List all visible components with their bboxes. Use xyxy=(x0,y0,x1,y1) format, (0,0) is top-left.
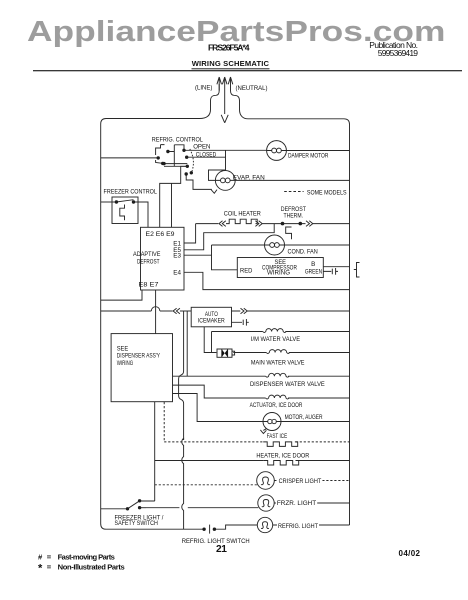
plug prong LINE xyxy=(217,77,222,91)
svg-text:OPEN: OPEN xyxy=(193,143,210,150)
svg-text:HEATER, ICE DOOR: HEATER, ICE DOOR xyxy=(256,453,310,459)
fast ice row dashed xyxy=(164,402,349,446)
left riser v1 dispenser to safety switch xyxy=(141,402,155,501)
freezer light row xyxy=(146,495,350,511)
main schematic outline left xyxy=(101,119,204,530)
svg-text:FRZR. LIGHT: FRZR. LIGHT xyxy=(277,500,316,507)
wire E5 to therm junction xyxy=(184,224,274,250)
svg-text:GREEN: GREEN xyxy=(305,269,322,276)
actuator ice door row coil xyxy=(266,395,350,399)
solenoid coil main water valve xyxy=(266,350,289,354)
left riser v3 hops xyxy=(182,438,184,529)
svg-text:DISPENSER WATER VALVE: DISPENSER WATER VALVE xyxy=(250,382,325,388)
main water valve row xyxy=(204,327,349,358)
svg-text:E3: E3 xyxy=(173,253,181,260)
crisper light row xyxy=(155,472,350,490)
wire motor ground branch xyxy=(186,174,212,189)
heater ice door row xyxy=(155,461,350,466)
svg-text:B: B xyxy=(311,261,315,268)
wire B to bus xyxy=(323,266,349,268)
connector arrows << icemaker xyxy=(173,308,180,314)
defrost thermostat element xyxy=(286,227,292,239)
svg-text:Non-Illustrated Parts: Non-Illustrated Parts xyxy=(58,562,125,571)
svg-text:WIRING: WIRING xyxy=(117,360,134,367)
refrig switch dots xyxy=(202,528,205,531)
wire E7 down to dispenser box xyxy=(155,290,157,334)
freezer control xyxy=(101,197,148,227)
motor auger M4 xyxy=(260,413,349,434)
plug prong NEUTRAL xyxy=(228,77,248,119)
wire hop over E7 xyxy=(151,307,160,311)
contact dots refrig control xyxy=(157,156,160,159)
wire closed contact loop to evap fan xyxy=(187,150,226,180)
switch arm double lines xyxy=(164,164,187,167)
outline top right edge xyxy=(248,119,350,525)
svg-text:Fast-moving Parts: Fast-moving Parts xyxy=(58,552,115,561)
connector arrows >> icemaker out xyxy=(232,308,248,314)
evap fan motor M2 xyxy=(215,171,349,191)
svg-text:=: = xyxy=(47,552,52,561)
svg-text:CLOSED: CLOSED xyxy=(196,152,216,159)
svg-text:E2 E6 E9: E2 E6 E9 xyxy=(146,231,175,238)
svg-text:DISPENSER ASS'Y: DISPENSER ASS'Y xyxy=(117,353,161,360)
coil heater line with connectors xyxy=(196,219,350,239)
wire stub to actuator row xyxy=(173,385,266,398)
thermostat bellows refrig control xyxy=(156,145,165,164)
svg-text:5995369419: 5995369419 xyxy=(378,48,418,58)
svg-text:COIL HEATER: COIL HEATER xyxy=(224,211,262,217)
refrig door switch plunger xyxy=(209,525,211,534)
svg-text:EVAP. FAN: EVAP. FAN xyxy=(233,174,265,181)
wire E8 to left edge xyxy=(101,290,142,300)
wire E1 to coil heater line xyxy=(184,224,196,243)
svg-text:FREEZER CONTROL: FREEZER CONTROL xyxy=(104,189,158,195)
svg-text:21: 21 xyxy=(216,544,227,555)
ground clip bracket outside bus xyxy=(354,263,360,278)
cond fan motor M3 xyxy=(212,235,350,255)
solenoid coil actuator ice door xyxy=(266,395,289,399)
svg-text:THERM.: THERM. xyxy=(284,213,304,220)
svg-text:COND. FAN: COND. FAN xyxy=(288,249,318,255)
connector arrows >> xyxy=(255,221,262,227)
wire open contact row (damper feed) xyxy=(184,149,267,151)
defrost therm contact dots xyxy=(281,222,285,226)
wire stub to auger row xyxy=(173,394,264,422)
thermal fuse icemaker xyxy=(217,349,232,357)
lamp refrig light xyxy=(257,517,272,532)
wire refrig control feed from left edge xyxy=(101,157,158,159)
svg-text:ICEMAKER: ICEMAKER xyxy=(198,318,225,325)
svg-text:=: = xyxy=(47,562,52,571)
svg-text:SAFETY SWITCH: SAFETY SWITCH xyxy=(115,520,158,526)
svg-text:*: * xyxy=(38,562,43,574)
wire E4 to right bus xyxy=(184,272,350,289)
wire E3 tap xyxy=(184,254,212,256)
header rule xyxy=(33,70,462,71)
svg-text:SOME MODELS: SOME MODELS xyxy=(307,190,347,196)
wire line-prong lead-in xyxy=(200,84,220,119)
svg-text:SEE: SEE xyxy=(117,347,128,353)
connector arrows << xyxy=(219,221,226,227)
svg-text:RED: RED xyxy=(240,267,253,274)
icemaker box xyxy=(191,307,231,327)
svg-text:E8 E7: E8 E7 xyxy=(139,282,159,288)
svg-text:MOTOR, AUGER: MOTOR, AUGER xyxy=(285,415,323,422)
ground arrow auger xyxy=(260,429,266,434)
svg-text:04/02: 04/02 xyxy=(399,549,421,558)
auto icemaker row xyxy=(101,307,350,327)
i/m water valve row xyxy=(212,329,350,353)
svg-text:E4: E4 xyxy=(173,269,181,276)
contact dots freezer control xyxy=(115,200,118,203)
svg-text:FAST ICE: FAST ICE xyxy=(267,434,288,441)
svg-text:MAIN WATER VALVE: MAIN WATER VALVE xyxy=(251,360,305,366)
ground arrow evap fan xyxy=(211,190,217,194)
svg-text:DAMPER MOTOR: DAMPER MOTOR xyxy=(288,153,328,160)
solenoid coil i/m water valve xyxy=(263,329,286,333)
svg-text:FRS26F5A*4: FRS26F5A*4 xyxy=(208,42,250,52)
solenoid coil dispenser water valve xyxy=(266,373,289,377)
damper motor M1 xyxy=(267,141,350,161)
svg-text:CRISPER LIGHT: CRISPER LIGHT xyxy=(279,479,322,485)
plug prong middle ground xyxy=(221,77,228,123)
resistor fast ice xyxy=(263,442,298,447)
icemaker plug stub xyxy=(232,319,249,326)
svg-text:(LINE): (LINE) xyxy=(195,85,212,91)
svg-text:WIRING SCHEMATIC: WIRING SCHEMATIC xyxy=(192,59,270,68)
wire green with connector xyxy=(323,268,338,275)
dispenser water valve row xyxy=(173,373,350,377)
freezer light safety switch xyxy=(101,501,155,509)
wire arm to vertical xyxy=(168,145,184,167)
resistor coil heater xyxy=(226,219,257,223)
svg-text:#: # xyxy=(38,552,43,561)
svg-text:WIRING: WIRING xyxy=(267,269,290,276)
svg-text:DEFROST: DEFROST xyxy=(137,259,160,266)
adaptive defrost control board xyxy=(141,227,185,290)
safety switch dots xyxy=(126,507,129,510)
lamp freezer light xyxy=(258,495,274,511)
connector arrows >> after therm xyxy=(306,221,313,227)
legend dashed some models xyxy=(284,191,303,193)
compressor wiring box xyxy=(212,245,350,278)
dispenser assy wiring box xyxy=(111,311,266,440)
svg-text:ADAPTIVE: ADAPTIVE xyxy=(133,252,160,258)
refrig light row xyxy=(210,517,350,533)
svg-text:(NEUTRAL): (NEUTRAL) xyxy=(236,86,268,92)
svg-text:REFRIG. LIGHT: REFRIG. LIGHT xyxy=(278,524,318,530)
wire E6 E9 feed from contact xyxy=(160,166,188,227)
lamp crisper light xyxy=(257,472,275,490)
resistor heater ice door xyxy=(263,461,299,466)
svg-text:I/M WATER VALVE: I/M WATER VALVE xyxy=(251,337,300,343)
svg-text:ACTUATOR, ICE DOOR: ACTUATOR, ICE DOOR xyxy=(250,403,303,410)
wire icemaker feed pair down from row xyxy=(179,311,184,440)
dashed cam arc xyxy=(190,149,194,173)
